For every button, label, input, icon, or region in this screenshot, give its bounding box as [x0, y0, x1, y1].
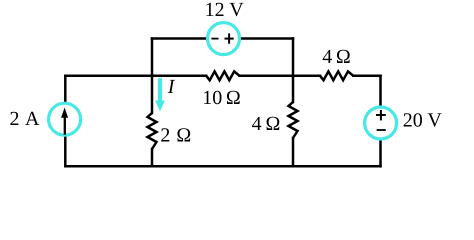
svg-text:Ω: Ω: [226, 87, 241, 109]
svg-text:2: 2: [10, 108, 20, 130]
svg-text:Ω: Ω: [176, 125, 191, 147]
svg-text:A: A: [25, 108, 40, 130]
svg-text:20 V: 20 V: [403, 110, 443, 132]
svg-text:2: 2: [160, 125, 170, 147]
svg-text:12 V: 12 V: [205, 0, 245, 21]
svg-text:Ω: Ω: [336, 46, 351, 68]
svg-text:4: 4: [252, 113, 262, 135]
svg-text:4: 4: [322, 46, 332, 68]
svg-text:I: I: [167, 76, 176, 98]
svg-text:10: 10: [202, 87, 222, 109]
svg-text:Ω: Ω: [265, 113, 280, 135]
